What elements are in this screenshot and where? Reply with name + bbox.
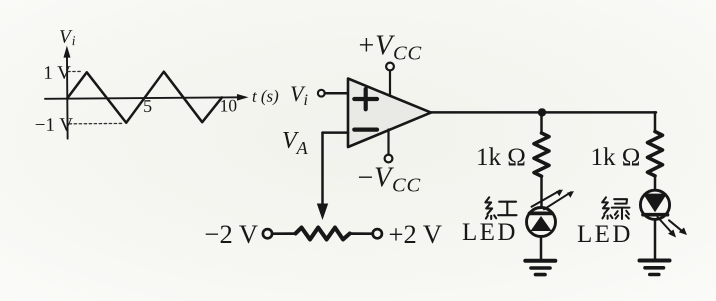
wire potentiometer to +2V terminal — [350, 232, 373, 235]
wire +VCC — [389, 71, 391, 97]
dashed line +1V — [68, 70, 83, 72]
wire -2V terminal to potentiometer — [272, 232, 296, 235]
wire junction to right branch — [654, 112, 657, 131]
terminal -2V — [263, 229, 272, 238]
svg-text:1 V: 1 V — [43, 63, 71, 84]
wire Vi to op-amp noninverting input — [325, 92, 348, 95]
svg-text:1k Ω: 1k Ω — [476, 144, 526, 171]
LED D2 green — [640, 190, 669, 219]
potentiometer resistor body — [296, 228, 350, 240]
wire VA down to potentiometer wiper — [321, 133, 324, 204]
terminal -VCC — [385, 155, 393, 163]
svg-text:−2 V: −2 V — [205, 219, 258, 249]
terminal +VCC — [386, 63, 394, 71]
ground left — [525, 261, 555, 275]
wire right resistor to green LED — [654, 176, 657, 190]
svg-text:10: 10 — [219, 95, 237, 115]
svg-text:LED: LED — [577, 221, 633, 248]
terminal Vi input — [318, 90, 325, 97]
graph Vi axis (vertical) — [63, 46, 71, 139]
waveform Vi triangle wave — [67, 71, 222, 123]
svg-text:−1 V: −1 V — [35, 115, 74, 136]
op-amp U1 — [348, 79, 431, 148]
svg-text:+2 V: +2 V — [389, 219, 442, 249]
svg-text:LED: LED — [462, 219, 518, 246]
wire inverting input — [323, 131, 349, 134]
wire -VCC — [387, 130, 389, 155]
green LED light arrows — [658, 217, 688, 238]
wire green LED to ground — [654, 219, 657, 259]
svg-text:1k Ω: 1k Ω — [591, 144, 641, 171]
wire left resistor to red LED — [540, 176, 543, 207]
ground right — [640, 261, 670, 275]
wire op-amp output — [431, 111, 656, 114]
resistor R1 1k ohm (left) — [534, 133, 549, 176]
LED D1 red — [527, 208, 556, 237]
graph t axis (horizontal) — [45, 94, 249, 102]
junction node — [538, 108, 546, 116]
label Lv (green) hanzi — [602, 197, 629, 219]
wire red LED to ground — [540, 237, 543, 260]
red LED light arrows — [532, 190, 575, 210]
svg-text:5: 5 — [143, 96, 152, 116]
potentiometer wiper arrowhead — [317, 204, 328, 221]
dashed line -1V — [69, 122, 123, 124]
wire junction down to left resistor — [540, 112, 543, 133]
svg-text:(s): (s) — [261, 86, 279, 105]
resistor R2 1k ohm (right) — [648, 132, 663, 176]
label Hong (red) hanzi — [485, 197, 516, 219]
terminal +2V — [373, 229, 382, 238]
